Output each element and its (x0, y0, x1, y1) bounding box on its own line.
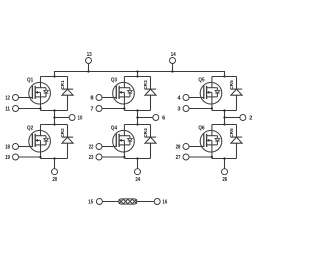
transistor Q5 (200, 82, 222, 104)
diode CR6 (231, 125, 242, 159)
svg-text:24: 24 (135, 177, 141, 183)
wire phase node leg 2 (137, 111, 139, 125)
wire cell top Q2/CR2 (41, 124, 68, 126)
junction source sense Q4 (123, 156, 125, 158)
svg-text:Q4: Q4 (111, 125, 117, 131)
junction pin 13 on bus (87, 70, 89, 72)
junction output leg 1 (53, 116, 55, 118)
wire source Q4 (123, 145, 125, 159)
junction output leg 3 (223, 116, 225, 118)
svg-text:16: 16 (162, 199, 167, 205)
svg-text:CR2: CR2 (60, 128, 65, 138)
junction source sense Q1 (39, 107, 41, 109)
svg-text:15: 15 (88, 199, 93, 205)
svg-text:11: 11 (5, 106, 10, 112)
wire output leg 2 (138, 117, 153, 119)
svg-text:19: 19 (5, 155, 10, 161)
wire positive bus (55, 72, 225, 77)
wire source sense Q5 (189, 108, 212, 110)
svg-text:CR1: CR1 (60, 80, 65, 90)
wire cell bottom Q1/CR1 (41, 110, 68, 112)
wire gate Q1 (19, 97, 33, 99)
svg-text:CR6: CR6 (229, 128, 234, 138)
pin 16 thermistor terminal (154, 199, 160, 205)
wire thermistor left (102, 201, 118, 203)
junction phase top leg 1 (53, 109, 55, 111)
junction source sense Q3 (123, 107, 125, 109)
transistor Q3 (113, 82, 135, 104)
wire negative stub leg 1 (54, 159, 56, 169)
svg-text:Q5: Q5 (198, 77, 204, 83)
wire cell top Q3/CR3 (124, 76, 150, 78)
wire gate Q3 (102, 97, 116, 99)
junction negative stub leg 3 (223, 157, 225, 159)
junction source sense Q5 (211, 107, 213, 109)
svg-text:10: 10 (78, 115, 83, 121)
wire output leg 3 (225, 117, 240, 119)
svg-text:13: 13 (87, 52, 92, 58)
svg-text:14: 14 (171, 52, 177, 58)
wire source sense Q6 (189, 156, 212, 158)
pin 28 gate terminal (183, 144, 189, 150)
wire gate Q6 (189, 146, 204, 148)
wire thermistor right (137, 201, 154, 203)
wire phase node leg 1 (54, 111, 56, 125)
wire cell top Q6/CR6 (212, 124, 237, 126)
wire source Q5 (211, 97, 213, 111)
svg-text:CR4: CR4 (143, 128, 148, 138)
wire drain Q2 (40, 125, 42, 136)
svg-text:22: 22 (89, 144, 94, 150)
diode CR5 (231, 77, 242, 111)
diode CR2 (62, 125, 73, 159)
pin 26 negative terminal (222, 169, 228, 175)
wire source sense Q2 (19, 156, 41, 158)
pin 20 negative terminal (52, 169, 58, 175)
pin 8 gate terminal (96, 95, 102, 101)
pin 14 positive terminal (170, 58, 176, 64)
svg-text:12: 12 (5, 95, 10, 101)
wire bus riser leg 2 (137, 72, 139, 77)
wire pin 13 stub (88, 64, 90, 72)
pin 13 positive terminal (86, 58, 92, 64)
pin 3 source sense terminal (183, 106, 189, 112)
wire source sense Q1 (19, 108, 41, 110)
junction output leg 2 (136, 116, 138, 118)
svg-text:8: 8 (90, 95, 93, 101)
resistor RT thermistor (119, 199, 137, 204)
svg-text:Q1: Q1 (27, 77, 33, 83)
wire cell top Q1/CR1 (41, 76, 68, 78)
pin 27 source sense terminal (183, 154, 189, 160)
junction phase bottom leg 2 (136, 123, 138, 125)
wire drain Q6 (211, 125, 213, 136)
wire source sense Q4 (102, 156, 124, 158)
junction source sense Q6 (211, 156, 213, 158)
wire negative stub leg 2 (137, 159, 139, 169)
wire output leg 1 (55, 117, 70, 119)
wire cell bottom Q2/CR2 (41, 158, 68, 160)
svg-text:Q6: Q6 (198, 125, 204, 131)
wire source Q1 (40, 97, 42, 111)
diode CR1 (62, 77, 73, 111)
wire gate Q5 (189, 97, 204, 99)
pin 4 gate terminal (183, 95, 189, 101)
pin 12 gate terminal (13, 95, 19, 101)
junction phase bottom leg 3 (223, 123, 225, 125)
pin 15 thermistor terminal (96, 199, 102, 205)
junction bus to cell top leg 1 (53, 75, 55, 77)
wire gate Q4 (102, 146, 116, 148)
svg-text:3: 3 (177, 106, 180, 112)
transistor Q1 (29, 82, 51, 104)
wire negative stub leg 3 (224, 159, 226, 169)
svg-text:23: 23 (89, 155, 94, 161)
wire cell bottom Q4/CR4 (124, 158, 150, 160)
wire source sense Q3 (102, 108, 124, 110)
wire phase node leg 3 (224, 111, 226, 125)
wire source Q6 (211, 145, 213, 159)
svg-text:Q2: Q2 (27, 125, 33, 131)
svg-text:CR5: CR5 (229, 80, 234, 90)
transistor Q4 (113, 130, 135, 152)
pin 2 phase output terminal (240, 115, 246, 121)
svg-text:CR3: CR3 (143, 80, 148, 90)
junction phase bottom leg 1 (53, 123, 55, 125)
pin 10 phase output terminal (69, 115, 75, 121)
wire cell bottom Q6/CR6 (212, 158, 237, 160)
junction source sense Q2 (39, 156, 41, 158)
svg-text:27: 27 (176, 155, 181, 161)
svg-text:7: 7 (90, 106, 93, 112)
junction phase top leg 3 (223, 109, 225, 111)
svg-text:20: 20 (52, 177, 57, 183)
wire source Q2 (40, 145, 42, 159)
svg-text:2: 2 (249, 115, 252, 121)
transistor Q2 (29, 130, 51, 152)
wire cell bottom Q3/CR3 (124, 110, 150, 112)
svg-text:18: 18 (5, 144, 10, 150)
pin 19 source sense terminal (13, 154, 19, 160)
diode CR3 (145, 77, 156, 111)
pin 7 source sense terminal (96, 106, 102, 112)
wire drain Q4 (123, 125, 125, 136)
pin 23 source sense terminal (96, 154, 102, 160)
wire cell top Q5/CR5 (212, 76, 237, 78)
wire drain Q3 (123, 77, 125, 88)
junction bus riser leg 2 (136, 70, 138, 72)
pin 11 source sense terminal (13, 106, 19, 112)
junction bus to cell top leg 3 (223, 75, 225, 77)
wire cell top Q4/CR4 (124, 124, 150, 126)
junction negative stub leg 2 (136, 157, 138, 159)
svg-text:6: 6 (162, 115, 165, 121)
junction pin 14 on bus (171, 70, 173, 72)
wire cell bottom Q5/CR5 (212, 110, 237, 112)
wire pin 14 stub (172, 64, 174, 72)
transistor Q6 (200, 130, 222, 152)
wire drain Q5 (211, 77, 213, 88)
wire source Q3 (123, 97, 125, 111)
diode CR4 (145, 125, 156, 159)
pin 22 gate terminal (96, 144, 102, 150)
wire gate Q2 (19, 146, 33, 148)
pin 6 phase output terminal (153, 115, 159, 121)
svg-text:Q3: Q3 (111, 77, 117, 83)
junction negative stub leg 1 (53, 157, 55, 159)
junction bus to cell top leg 2 (136, 75, 138, 77)
pin 24 negative terminal (135, 169, 141, 175)
wire drain Q1 (40, 77, 42, 88)
junction phase top leg 2 (136, 109, 138, 111)
svg-text:26: 26 (222, 177, 227, 183)
pin 18 gate terminal (13, 144, 19, 150)
svg-text:28: 28 (176, 144, 181, 150)
